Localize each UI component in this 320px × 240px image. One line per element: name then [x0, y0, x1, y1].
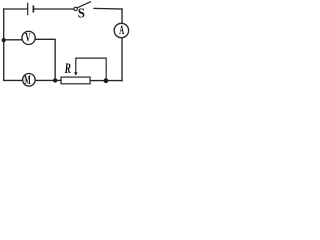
svg-text:R: R [64, 60, 71, 77]
svg-text:M: M [24, 74, 31, 88]
svg-text:S: S [78, 5, 85, 20]
svg-text:A: A [119, 24, 124, 38]
svg-text:V: V [25, 32, 31, 45]
